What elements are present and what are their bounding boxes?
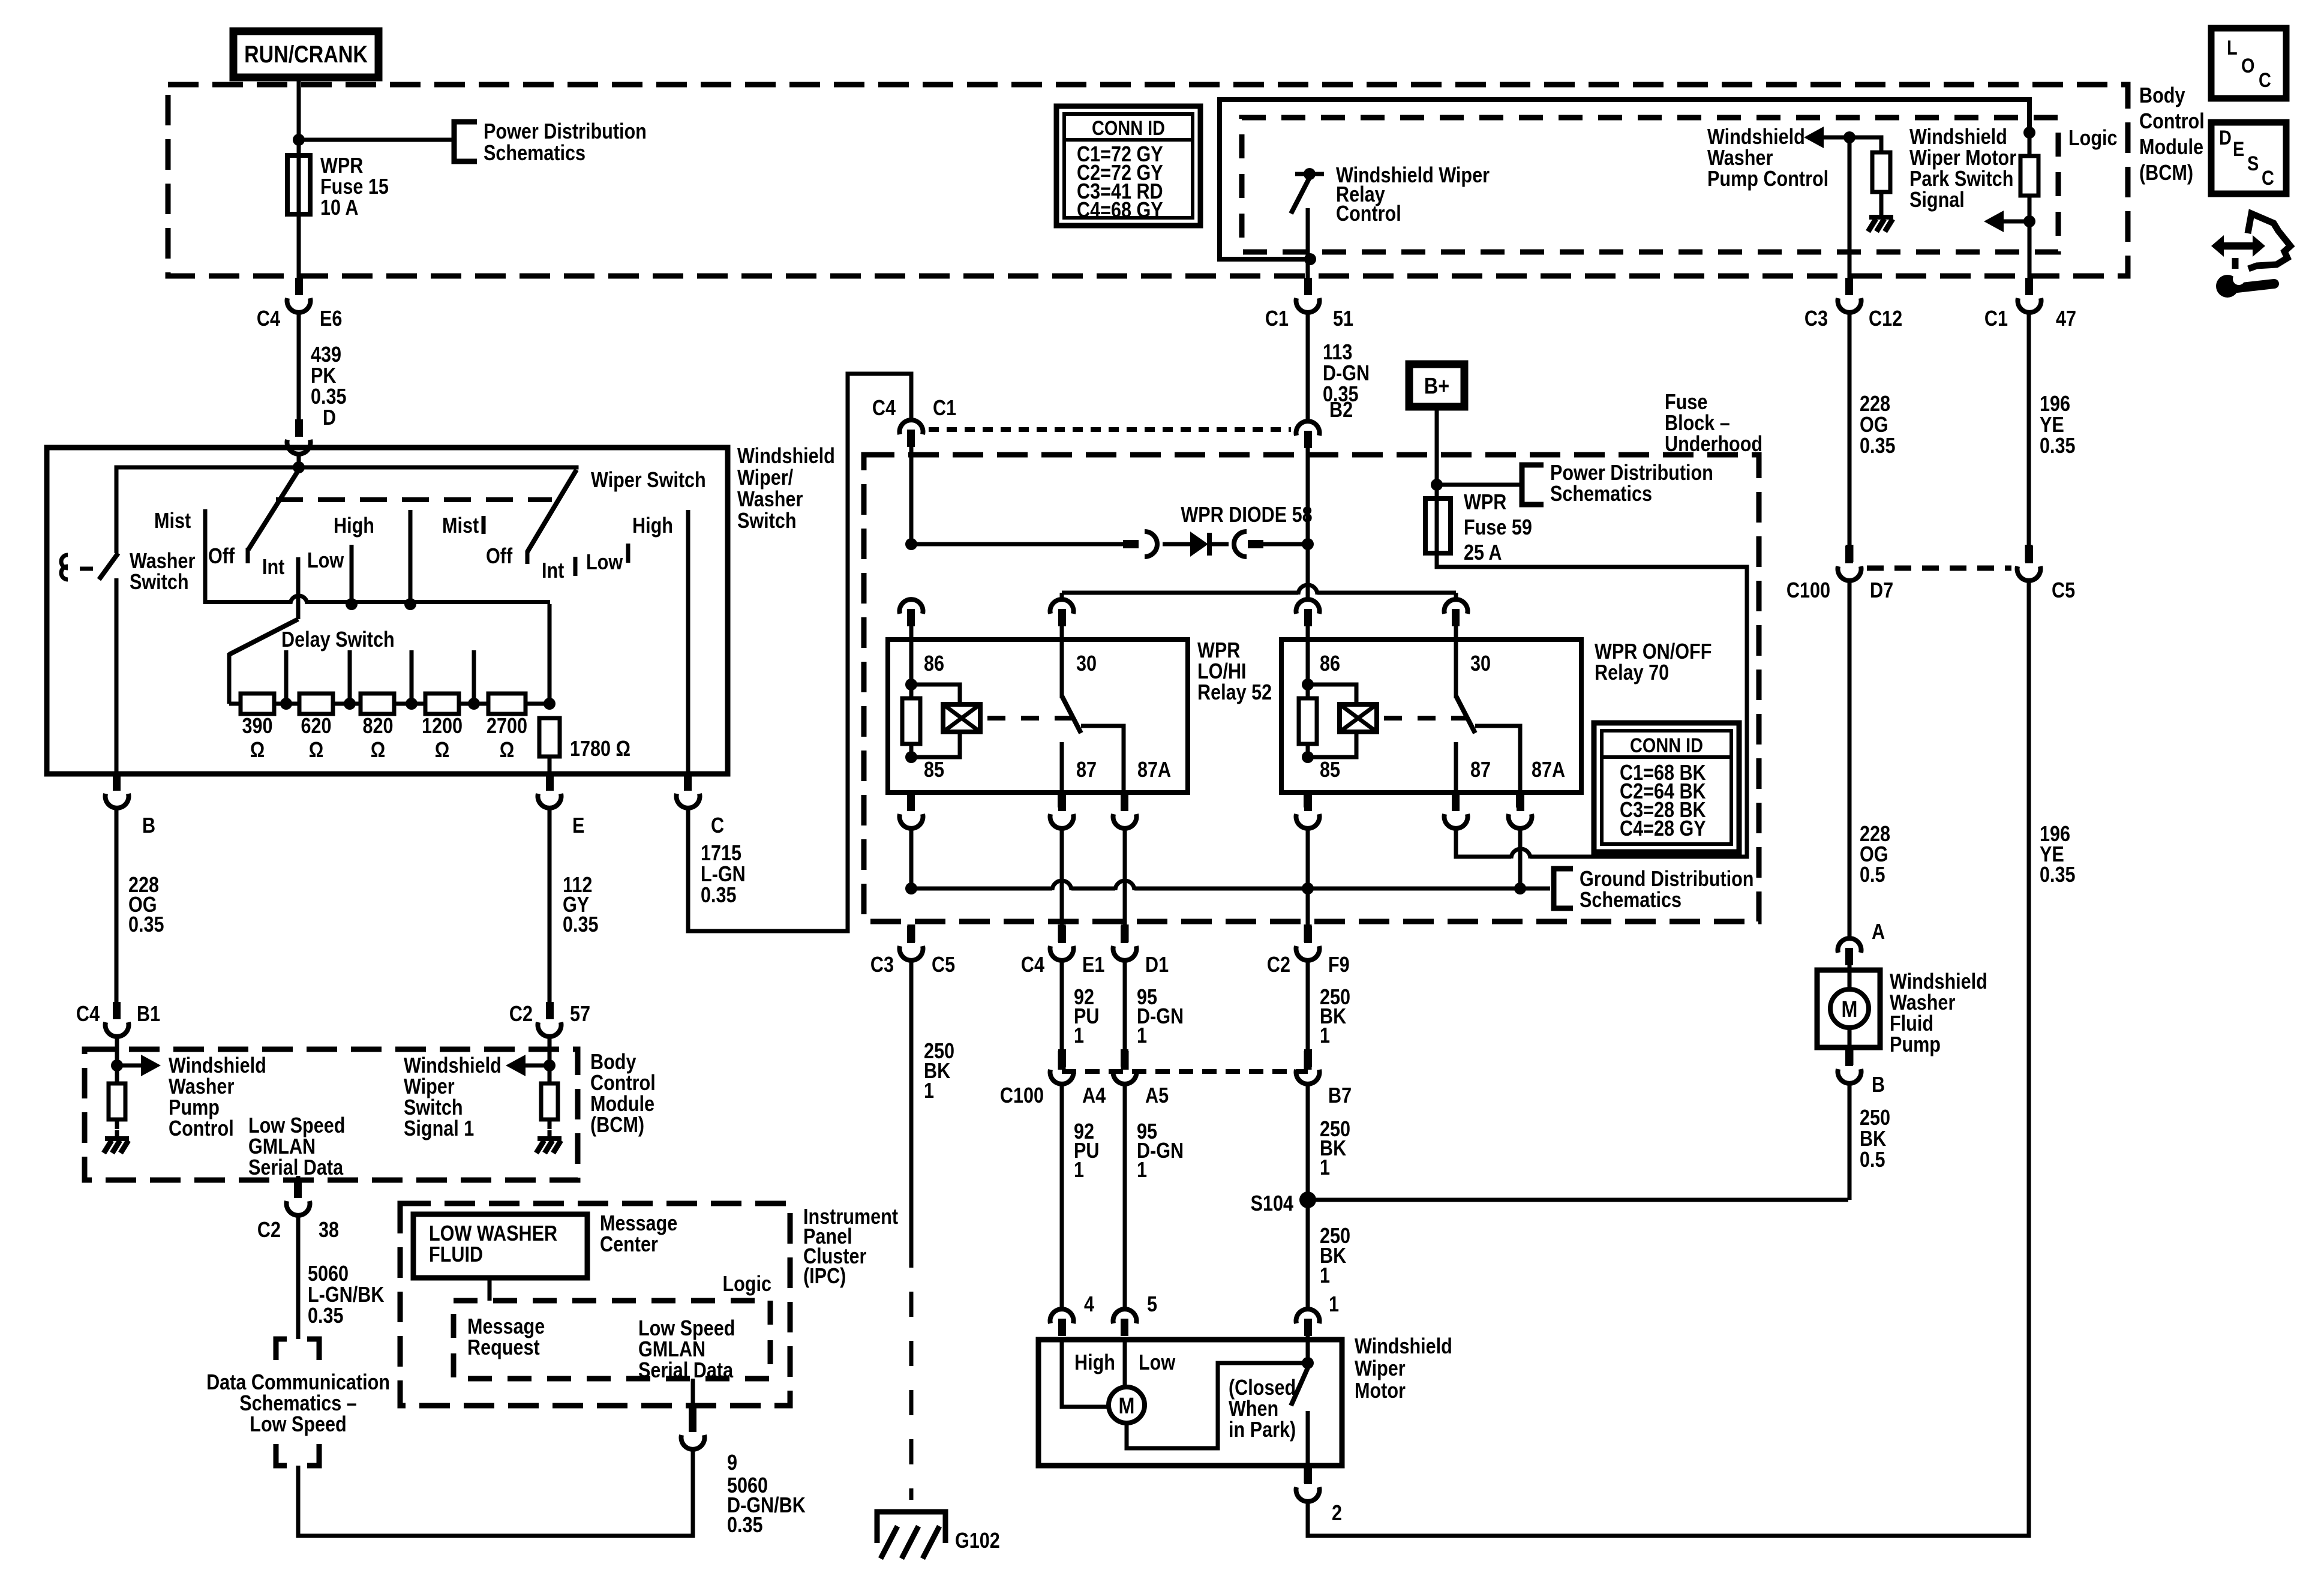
- label Low Speed GMLAN Serial Data (IPC): [638, 1317, 735, 1383]
- svg-text:Module: Module: [590, 1092, 654, 1116]
- switch wiper relay control driver: [1291, 168, 1324, 262]
- wire 87A to ground bus: [1518, 828, 1523, 888]
- connector C1|47: [2018, 278, 2041, 313]
- svg-text:A5: A5: [1145, 1084, 1169, 1108]
- svg-text:Fluid: Fluid: [1890, 1012, 1933, 1036]
- svg-text:0.35: 0.35: [311, 385, 347, 409]
- svg-text:Off: Off: [208, 545, 235, 569]
- wire D into switch box: [297, 454, 301, 470]
- label Logic (BCM): [2068, 127, 2118, 151]
- connector C4|C1: [900, 420, 923, 447]
- label WPR ON/OFF Relay 70: [1595, 640, 1712, 685]
- wire 1715 L-GN 0.35 path: [688, 374, 911, 931]
- svg-text:87A: 87A: [1137, 758, 1171, 782]
- wire 85 to ground bus: [909, 828, 914, 888]
- label (Closed When in Park): [1229, 1376, 1296, 1442]
- label Low (motor): [1139, 1351, 1176, 1375]
- switch park blade: [1291, 1368, 1308, 1406]
- wire B7 to S104: [1306, 1084, 1310, 1200]
- svg-text:Relay 52: Relay 52: [1197, 681, 1272, 705]
- svg-text:(BCM): (BCM): [590, 1113, 644, 1137]
- svg-text:4: 4: [1084, 1293, 1094, 1317]
- wire 87A to D1: [1123, 828, 1127, 927]
- relay K52 coil: [902, 626, 980, 763]
- svg-text:Power Distribution: Power Distribution: [1550, 461, 1713, 485]
- label Windshield Wiper/Washer Switch: [737, 445, 835, 533]
- indicator LOW WASHER FLUID: [413, 1214, 587, 1278]
- key LOC box: [2211, 28, 2286, 98]
- connector pin 87A (K52): [1121, 792, 1128, 807]
- connector relay52 cavity 30: [1050, 599, 1074, 626]
- label B: [142, 814, 155, 838]
- node ground bus / 85: [905, 882, 917, 894]
- label C4 (C1 conn): [872, 397, 896, 421]
- label C100 (D7): [1786, 579, 1830, 603]
- label C1 (51): [1265, 307, 1289, 331]
- connector D1: [1113, 926, 1137, 960]
- svg-text:Fuse 15: Fuse 15: [320, 175, 389, 199]
- label WPR DIODE 58: [1181, 503, 1312, 527]
- node 1780 junction: [526, 604, 556, 710]
- svg-text:S104: S104: [1251, 1192, 1294, 1216]
- svg-text:Ω: Ω: [435, 739, 450, 763]
- svg-text:2700: 2700: [487, 715, 527, 739]
- svg-text:Schematics: Schematics: [1580, 888, 1682, 912]
- label wire 5060 D-GN/BK 0.35: [727, 1474, 806, 1538]
- node High junction: [404, 598, 416, 610]
- wire C1 pin into fuse block: [909, 444, 914, 546]
- connector pin A5: [1121, 1051, 1129, 1070]
- svg-text:C2: C2: [257, 1218, 281, 1242]
- relay K70 box WPR ON/OFF Relay 70: [1281, 640, 1581, 792]
- svg-text:E1: E1: [1082, 953, 1104, 977]
- label 87A (K52): [1137, 758, 1171, 782]
- wire relay control to C1|51: [1306, 259, 1310, 278]
- label C1 (47): [1984, 307, 2008, 331]
- label Message Request: [467, 1315, 545, 1360]
- label Windshield Wiper Relay Control: [1336, 164, 1490, 226]
- label wire 196 YE 0.35 (upper): [2040, 392, 2076, 458]
- node bus/main junction: [293, 461, 305, 473]
- svg-text:Washer: Washer: [1890, 991, 1955, 1015]
- svg-text:Schematics: Schematics: [484, 142, 585, 166]
- svg-text:WPR: WPR: [1464, 491, 1506, 515]
- svg-text:C1: C1: [1265, 307, 1289, 331]
- node B+ branch: [1431, 479, 1443, 491]
- svg-text:D1: D1: [1145, 953, 1169, 977]
- svg-text:Serial Data: Serial Data: [638, 1359, 733, 1383]
- wire A5 to motor 5: [1123, 1084, 1127, 1310]
- box Windshield Wiper/Washer Switch: [47, 448, 728, 774]
- label wire 228 OG 0.35: [128, 873, 164, 937]
- wire RUN/CRANK to fuse 15: [297, 77, 301, 158]
- svg-text:OG: OG: [1860, 413, 1888, 437]
- connector pin 87 (K70): [1452, 792, 1460, 807]
- power label RUN/CRANK: [233, 31, 379, 77]
- label High (left bank): [334, 514, 374, 538]
- connector B: [105, 773, 128, 808]
- svg-text:86: 86: [924, 652, 944, 676]
- connector pin C2|F9: [1304, 924, 1312, 942]
- connector pin 87A (K70): [1516, 792, 1524, 807]
- label wire 250 BK 1 (S104-motor): [1320, 1224, 1350, 1288]
- svg-text:Signal: Signal: [1909, 188, 1965, 212]
- resistor R2700: [487, 694, 527, 763]
- label wire 1715 L-GN 0.35: [701, 842, 746, 908]
- pump box: [1817, 970, 1880, 1047]
- svg-text:C12: C12: [1869, 307, 1902, 331]
- dotted harness line C1 to B2: [929, 427, 1291, 432]
- connector relay70 87 out: [1445, 794, 1468, 828]
- label C1 (fuse block): [933, 397, 956, 421]
- node ground bus / 87A: [1514, 882, 1526, 894]
- svg-text:M: M: [1119, 1394, 1135, 1419]
- svg-text:Logic: Logic: [2068, 127, 2118, 151]
- svg-text:Body: Body: [590, 1050, 636, 1074]
- label Message Center: [600, 1212, 677, 1257]
- icon service arrow and wrench: [2211, 214, 2290, 298]
- svg-text:57: 57: [570, 1002, 590, 1026]
- svg-text:(IPC): (IPC): [803, 1265, 846, 1289]
- wire 5060 L-GN/BK 0.35: [296, 1215, 301, 1339]
- label B7: [1328, 1084, 1352, 1108]
- svg-text:C100: C100: [1786, 579, 1830, 603]
- resistor R390: [229, 694, 274, 763]
- inline connector diode right: [1234, 532, 1247, 557]
- svg-text:Washer: Washer: [1707, 146, 1773, 170]
- connector C: [677, 773, 700, 808]
- resistor park switch signal: [2020, 133, 2038, 221]
- svg-text:Pump Control: Pump Control: [1707, 167, 1828, 191]
- connector relay52 85 out: [900, 794, 923, 828]
- svg-text:Wiper: Wiper: [404, 1075, 455, 1099]
- relay K70 coil: [1299, 626, 1377, 763]
- svg-text:(Closed: (Closed: [1229, 1376, 1296, 1400]
- label 57: [570, 1002, 590, 1026]
- node relay control out: [1304, 253, 1316, 265]
- label Wiper Switch: [591, 469, 706, 493]
- svg-text:WPR DIODE 58: WPR DIODE 58: [1181, 503, 1312, 527]
- svg-text:High: High: [1074, 1351, 1115, 1375]
- connector pin B: [115, 774, 119, 780]
- label 30 (K70): [1470, 652, 1491, 676]
- wire B2 into fuse block: [1306, 444, 1310, 546]
- svg-text:Int: Int: [542, 559, 564, 583]
- connector pump B: [1838, 1049, 1861, 1083]
- svg-text:228: 228: [1860, 392, 1890, 416]
- svg-text:Ω: Ω: [371, 739, 386, 763]
- label Mist (right bank): [442, 514, 486, 538]
- fuse F15 WPR Fuse 15 10A: [287, 140, 389, 220]
- label wire 95 D-GN 1 (upper): [1137, 986, 1184, 1048]
- svg-text:Control: Control: [169, 1117, 234, 1141]
- connector pin 87 (K52): [1058, 792, 1065, 807]
- svg-text:Washer: Washer: [169, 1075, 234, 1099]
- wire datacomm to serial bus: [298, 1450, 693, 1536]
- label Washer Switch: [130, 550, 195, 595]
- label wire 196 YE 0.35 (lower): [2040, 822, 2076, 887]
- svg-text:Schematics –: Schematics –: [239, 1392, 357, 1416]
- svg-text:C5: C5: [932, 953, 955, 977]
- label wire 250 BK 0.5: [1860, 1106, 1890, 1172]
- connector pin C100|D7: [1846, 545, 1854, 562]
- label C2 (F9): [1267, 953, 1290, 977]
- connector 9: [681, 1415, 705, 1449]
- label C5 (lower): [932, 953, 955, 977]
- svg-text:C4: C4: [1021, 953, 1044, 977]
- svg-text:87: 87: [1076, 758, 1097, 782]
- wire Int contact through hop: [296, 557, 301, 619]
- svg-text:C3: C3: [870, 953, 894, 977]
- connector pin B (pump): [1846, 1047, 1854, 1065]
- label wire 112 GY 0.35: [563, 873, 599, 937]
- svg-text:0.35: 0.35: [2040, 863, 2076, 887]
- wire B+ to fuse 59: [1435, 407, 1439, 500]
- fuse F59 WPR Fuse 59 25A: [1425, 491, 1532, 565]
- wire indicator to logic: [488, 1278, 492, 1301]
- wire serial data to 9: [691, 1379, 695, 1409]
- wire High right / C column: [686, 510, 690, 774]
- label 51: [1333, 307, 1353, 331]
- wire E1 to A4: [1060, 960, 1064, 1051]
- svg-text:9: 9: [727, 1451, 737, 1475]
- wire motor 2 to park signal: [1308, 580, 2029, 1536]
- wire top bus: [115, 466, 579, 470]
- connector C3|C12: [1838, 278, 1861, 313]
- svg-text:LOW WASHER: LOW WASHER: [429, 1222, 557, 1246]
- BCM lower dashed box: [85, 1049, 578, 1180]
- svg-text:Wiper Switch: Wiper Switch: [591, 469, 706, 493]
- svg-text:Washer: Washer: [130, 550, 195, 574]
- label 4: [1084, 1293, 1094, 1317]
- motor M windshield wiper: [1109, 1387, 1145, 1423]
- svg-text:Data Communication: Data Communication: [206, 1371, 390, 1395]
- svg-text:5060: 5060: [308, 1262, 349, 1286]
- wire relay 30 feed: [1060, 585, 1458, 600]
- svg-text:0.35: 0.35: [128, 913, 164, 937]
- svg-text:Ground Distribution: Ground Distribution: [1580, 867, 1754, 891]
- svg-text:LO/HI: LO/HI: [1197, 660, 1247, 684]
- wire 250 BK 1 (IPC): [909, 960, 914, 1500]
- connector C1|51: [1296, 278, 1320, 313]
- connector relay52 87 out: [1050, 794, 1074, 828]
- wire pump B to S104: [1848, 1083, 1852, 1200]
- svg-text:A: A: [1872, 920, 1885, 944]
- svg-text:C4: C4: [76, 1002, 100, 1026]
- resistor R1780: [539, 718, 630, 774]
- label Windshield Wiper Motor Park Switch Signal: [1909, 125, 2016, 212]
- label Instrument Panel Cluster (IPC): [803, 1205, 898, 1289]
- svg-text:Low Speed: Low Speed: [638, 1317, 735, 1341]
- svg-text:Park Switch: Park Switch: [1909, 167, 2013, 191]
- label Windshield Washer Pump Control: [169, 1054, 266, 1141]
- wire 87 to E1: [1060, 828, 1064, 927]
- arrow windshield wiper switch signal 1: [506, 1055, 550, 1076]
- node delay tap 2: [333, 650, 361, 710]
- label wire 228 OG 0.5: [1860, 822, 1890, 887]
- svg-text:High: High: [632, 514, 673, 538]
- wire 87 to fuse 59 loop: [1437, 553, 1747, 858]
- svg-text:D: D: [323, 406, 336, 430]
- svg-text:1715: 1715: [701, 842, 741, 866]
- svg-text:Windshield: Windshield: [404, 1054, 502, 1078]
- connector C2|57: [538, 1002, 562, 1037]
- label 1: [1329, 1293, 1339, 1317]
- node delay tap 1: [274, 650, 299, 710]
- label Int (right bank): [542, 557, 578, 583]
- svg-text:1780 Ω: 1780 Ω: [570, 737, 630, 761]
- wire Mist contact: [203, 509, 208, 604]
- off-page box Data Communication Schematics bottom: [276, 1444, 319, 1466]
- svg-text:Off: Off: [486, 545, 513, 569]
- connector motor 4: [1050, 1309, 1074, 1336]
- svg-text:C100: C100: [1000, 1084, 1044, 1108]
- svg-text:Switch: Switch: [737, 509, 797, 533]
- label E1: [1082, 953, 1104, 977]
- svg-text:WPR: WPR: [1197, 639, 1240, 663]
- resistor wiper switch signal pulldown: [541, 1065, 558, 1129]
- label B1: [137, 1002, 160, 1026]
- svg-text:0.5: 0.5: [1860, 1148, 1885, 1172]
- connector relay70 85 out: [1296, 794, 1320, 828]
- svg-text:0.35: 0.35: [2040, 434, 2076, 458]
- svg-text:Pump: Pump: [1890, 1033, 1941, 1057]
- label D1: [1145, 953, 1169, 977]
- svg-text:Fuse: Fuse: [1665, 391, 1707, 415]
- resistor washer pump pulldown: [109, 1065, 125, 1129]
- connector pin C3|C5: [908, 924, 915, 942]
- wire 112 GY 0.35: [548, 808, 552, 1006]
- bracket Power Distribution Schematics: [454, 120, 647, 166]
- label Delay Switch: [281, 628, 395, 652]
- label wire 250 BK 1 (B7-S104): [1320, 1118, 1350, 1180]
- svg-text:5: 5: [1147, 1293, 1157, 1317]
- svg-text:Low Speed: Low Speed: [248, 1114, 345, 1138]
- svg-text:F9: F9: [1328, 953, 1350, 977]
- wire park contact: [1306, 1411, 1310, 1466]
- connector relay70 cavity 30: [1445, 599, 1468, 626]
- label 86 (K70): [1320, 652, 1340, 676]
- svg-text:A4: A4: [1082, 1084, 1106, 1108]
- node park switch: [1302, 1357, 1314, 1369]
- connector C100|D7: [1838, 546, 1861, 581]
- svg-text:FLUID: FLUID: [429, 1243, 483, 1267]
- switch wiper blade left: [248, 470, 299, 550]
- bracket Power Distribution Schematics (fuse block): [1522, 461, 1713, 506]
- svg-text:B: B: [1872, 1073, 1885, 1097]
- label Windshield Washer Pump Control: [1707, 125, 1828, 191]
- wire 228 OG 0.5: [1848, 581, 1852, 939]
- wire washer pump control into BCM: [115, 1037, 119, 1067]
- svg-text:Underhood: Underhood: [1665, 433, 1762, 457]
- label Windshield Wiper Motor: [1355, 1335, 1452, 1403]
- label B2: [1329, 398, 1353, 422]
- svg-text:Low: Low: [1139, 1351, 1176, 1375]
- node Low junction: [346, 598, 358, 610]
- svg-text:B+: B+: [1424, 374, 1449, 399]
- ground washer pump control driver: [1868, 209, 1893, 232]
- label C5: [2052, 579, 2075, 603]
- svg-text:Pump: Pump: [169, 1096, 220, 1120]
- node diode right junction: [1302, 538, 1314, 550]
- label Off (right bank): [486, 545, 513, 569]
- wire diode right segment: [1248, 540, 1308, 548]
- connector pin C4|E1: [1058, 924, 1066, 942]
- wire 228 OG 0.35 (upper): [1848, 313, 1852, 547]
- svg-text:0.35: 0.35: [727, 1514, 763, 1538]
- off-page box Data Communication Schematics top: [276, 1339, 319, 1360]
- motor M washer fluid pump: [1830, 965, 1869, 1047]
- svg-text:G102: G102: [955, 1529, 1000, 1553]
- svg-text:Signal 1: Signal 1: [404, 1117, 474, 1141]
- svg-text:Mist: Mist: [154, 509, 191, 533]
- connector B7: [1296, 1049, 1320, 1084]
- label wire 92 PU 1 (lower): [1074, 1120, 1099, 1182]
- switch washer blade: [99, 553, 118, 580]
- label C12: [1869, 307, 1902, 331]
- svg-text:820: 820: [362, 715, 393, 739]
- label wire 228 OG 0.35 (upper): [1860, 392, 1896, 458]
- svg-text:CONN ID: CONN ID: [1630, 734, 1703, 757]
- label G102: [955, 1529, 1000, 1553]
- label wire 250 BK 1 (F9): [1320, 986, 1350, 1048]
- label D7: [1870, 579, 1893, 603]
- svg-text:Control: Control: [2139, 110, 2205, 134]
- label C3 (C12): [1804, 307, 1828, 331]
- relay K52 switch: [1060, 626, 1124, 792]
- connector B2: [1296, 421, 1320, 448]
- svg-text:439: 439: [311, 343, 341, 367]
- svg-text:(BCM): (BCM): [2139, 161, 2193, 185]
- svg-text:D: D: [2219, 126, 2232, 149]
- svg-text:0.35: 0.35: [1860, 434, 1896, 458]
- svg-text:Block –: Block –: [1665, 412, 1730, 436]
- CONN ID table upper: [1056, 106, 1200, 226]
- fuse block dashed box: [864, 455, 1759, 921]
- label Fuse Block Underhood: [1665, 391, 1762, 457]
- label C: [711, 814, 724, 838]
- label A4: [1082, 1084, 1106, 1108]
- svg-text:B: B: [142, 814, 155, 838]
- wire ground bus: [911, 881, 1550, 890]
- svg-text:Message: Message: [600, 1212, 677, 1236]
- svg-text:250: 250: [1860, 1106, 1890, 1130]
- svg-text:51: 51: [1333, 307, 1353, 331]
- svg-text:Serial Data: Serial Data: [248, 1156, 343, 1180]
- wire park switch signal out: [2028, 221, 2032, 278]
- ground wiper switch signal pulldown: [536, 1130, 562, 1153]
- label 86 (K52): [924, 652, 944, 676]
- connector motor 5: [1113, 1309, 1137, 1336]
- label Low (left bank): [307, 549, 344, 573]
- wire 85 to F9: [1306, 828, 1310, 927]
- node delay tap 3: [394, 650, 425, 710]
- svg-text:Request: Request: [467, 1336, 540, 1360]
- label Body Control Module (BCM): [2139, 84, 2205, 185]
- label Body Control Module (BCM) lower: [590, 1050, 656, 1137]
- svg-text:C: C: [2259, 68, 2271, 92]
- svg-text:E6: E6: [320, 307, 342, 331]
- dotted harness line C100 right: [1867, 566, 2011, 571]
- svg-text:L: L: [2227, 36, 2238, 59]
- svg-text:1: 1: [1320, 1156, 1330, 1180]
- connector pin 9: [689, 1407, 696, 1424]
- label wire 95 D-GN 1 (lower): [1137, 1120, 1184, 1182]
- inline connector washer hose: [61, 555, 93, 580]
- svg-text:0.35: 0.35: [701, 884, 737, 908]
- label wire 250 BK 1 (IPC): [924, 1040, 954, 1103]
- svg-text:Schematics: Schematics: [1550, 482, 1652, 506]
